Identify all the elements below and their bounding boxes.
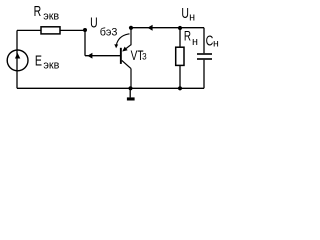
wire emitter vertical to top rail <box>130 28 132 46</box>
resistor R_н body <box>176 47 184 65</box>
svg-text:н: н <box>189 11 195 23</box>
label U_н <box>181 5 195 23</box>
svg-text:U: U <box>90 15 98 31</box>
label C_н <box>206 32 219 50</box>
current arrow on top rail pointing left <box>148 25 153 31</box>
ground bar <box>127 97 135 100</box>
wire capacitor top (from top rail corner) <box>203 28 205 54</box>
wire capacitor bottom <box>203 60 205 89</box>
U_бэ3 voltage arc arrow <box>114 34 129 49</box>
svg-text:3: 3 <box>142 51 147 62</box>
node dot emitter to top rail <box>129 26 133 30</box>
label VT3 <box>131 47 147 63</box>
node dot R_н bottom <box>178 86 182 90</box>
wire collector vertical to bottom rail <box>130 69 132 89</box>
label R_н <box>184 28 198 48</box>
svg-text:н: н <box>192 36 198 48</box>
capacitor C_н bottom plate <box>197 58 212 60</box>
label E_экв <box>35 51 60 71</box>
svg-text:экв: экв <box>43 60 59 72</box>
wire node A down to base level <box>84 30 86 55</box>
svg-text:экв: экв <box>43 11 59 23</box>
node dot ground junction <box>128 86 132 90</box>
wire top-left horizontal left segment <box>17 29 41 31</box>
wire top rail <box>131 27 204 29</box>
wire resistor to node A <box>60 29 85 31</box>
capacitor C_н top plate <box>197 53 212 55</box>
source E_экв arrow up <box>15 53 20 59</box>
resistor R_экв body <box>41 27 60 34</box>
svg-text:н: н <box>213 37 219 49</box>
wire left branch vertical (through source) <box>16 30 18 88</box>
node dot R_н top <box>178 26 182 30</box>
svg-text:R: R <box>184 28 191 44</box>
wire base horizontal <box>85 55 120 57</box>
node A junction dot <box>83 28 87 32</box>
current arrow on base wire pointing left <box>87 53 92 59</box>
wire R_н top <box>179 28 181 48</box>
wire R_н bottom <box>179 65 181 88</box>
ground stub wire <box>129 88 131 97</box>
svg-text:R: R <box>34 2 42 19</box>
svg-text:E: E <box>35 51 42 68</box>
svg-text:бэ3: бэ3 <box>100 26 118 38</box>
transistor VT3 emitter diagonal with PNP arrow into bar <box>122 45 131 52</box>
source E_экв circle <box>7 50 28 71</box>
wire bottom rail <box>17 87 204 89</box>
label R_экв <box>34 2 60 23</box>
label U_бэ3 <box>90 15 117 38</box>
transistor VT3 collector diagonal <box>122 60 131 68</box>
transistor VT3 base bar <box>120 48 122 64</box>
svg-text:U: U <box>181 5 189 21</box>
